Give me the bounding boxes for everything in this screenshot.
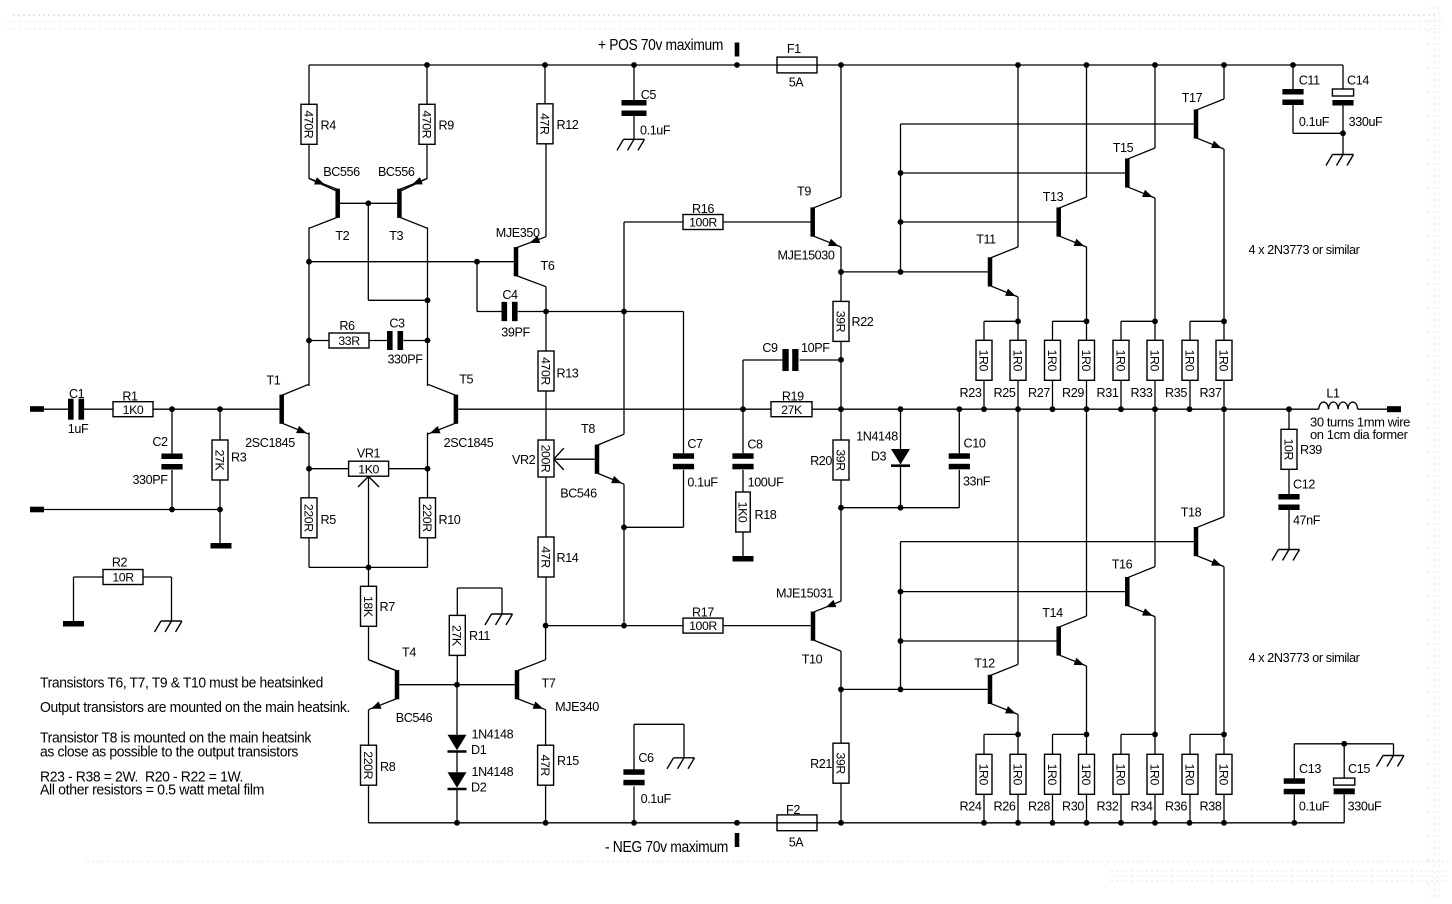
svg-text:BC556: BC556	[323, 165, 360, 179]
svg-text:+ POS 70v maximum: + POS 70v maximum	[598, 37, 723, 54]
svg-text:R36: R36	[1165, 800, 1187, 814]
svg-text:1R0: 1R0	[1079, 764, 1093, 786]
svg-text:R1: R1	[122, 390, 138, 404]
svg-text:T1: T1	[266, 374, 280, 388]
svg-text:47R: 47R	[538, 755, 552, 777]
svg-text:T13: T13	[1043, 190, 1064, 204]
svg-text:1R0: 1R0	[1216, 764, 1230, 786]
svg-text:330PF: 330PF	[132, 473, 168, 487]
svg-text:C1: C1	[69, 387, 85, 401]
svg-text:330uF: 330uF	[1348, 800, 1382, 814]
svg-text:100UF: 100UF	[748, 476, 785, 490]
svg-text:47nF: 47nF	[1293, 514, 1321, 528]
svg-text:All other resistors = 0.5 watt: All other resistors = 0.5 watt metal fil…	[40, 782, 264, 799]
svg-text:10R: 10R	[1281, 439, 1295, 461]
svg-text:0.1uF: 0.1uF	[1299, 800, 1330, 814]
svg-text:D3: D3	[871, 450, 887, 464]
svg-text:T15: T15	[1113, 141, 1134, 155]
svg-text:T14: T14	[1042, 606, 1063, 620]
svg-text:R27: R27	[1028, 386, 1050, 400]
svg-text:1R0: 1R0	[976, 350, 990, 372]
svg-text:1R0: 1R0	[1147, 764, 1161, 786]
svg-text:C9: C9	[762, 341, 778, 355]
svg-text:F1: F1	[787, 42, 801, 56]
svg-text:F2: F2	[786, 803, 800, 817]
svg-text:R29: R29	[1062, 386, 1084, 400]
svg-text:C6: C6	[638, 751, 654, 765]
svg-text:1K0: 1K0	[358, 462, 379, 476]
svg-text:C11: C11	[1299, 74, 1320, 88]
svg-text:33R: 33R	[338, 334, 360, 348]
svg-text:R38: R38	[1200, 800, 1222, 814]
svg-text:R3: R3	[231, 451, 247, 465]
svg-text:C7: C7	[687, 437, 703, 451]
svg-text:R2: R2	[112, 556, 128, 570]
svg-text:R21: R21	[810, 757, 832, 771]
svg-text:T2: T2	[335, 229, 349, 243]
svg-text:220R: 220R	[361, 751, 375, 779]
svg-text:1R0: 1R0	[1010, 764, 1024, 786]
svg-text:18K: 18K	[361, 596, 375, 618]
svg-text:39PF: 39PF	[501, 326, 530, 340]
svg-text:27K: 27K	[212, 450, 226, 472]
svg-text:10PF: 10PF	[801, 341, 830, 355]
svg-text:1R0: 1R0	[1182, 764, 1196, 786]
svg-text:1R0: 1R0	[1113, 764, 1127, 786]
svg-text:C10: C10	[964, 437, 986, 451]
svg-text:R7: R7	[380, 600, 396, 614]
svg-text:2SC1845: 2SC1845	[245, 436, 295, 450]
svg-text:T11: T11	[976, 233, 996, 247]
svg-text:1uF: 1uF	[68, 422, 89, 436]
svg-text:R5: R5	[321, 513, 337, 527]
svg-text:D2: D2	[471, 781, 487, 795]
svg-text:C5: C5	[641, 88, 657, 102]
svg-text:C15: C15	[1348, 762, 1370, 776]
svg-text:R25: R25	[994, 386, 1016, 400]
svg-text:Output transistors are mounted: Output transistors are mounted on the ma…	[40, 699, 350, 716]
svg-text:T10: T10	[802, 653, 823, 667]
svg-text:R11: R11	[469, 629, 490, 643]
svg-text:1R0: 1R0	[976, 764, 990, 786]
svg-text:BC546: BC546	[396, 711, 433, 725]
svg-text:T8: T8	[581, 422, 595, 436]
svg-text:D1: D1	[471, 743, 487, 757]
svg-text:VR1: VR1	[357, 447, 381, 461]
svg-text:2SC1845: 2SC1845	[444, 436, 494, 450]
svg-text:MJE15030: MJE15030	[777, 249, 834, 263]
svg-text:R20: R20	[810, 454, 832, 468]
svg-text:470R: 470R	[538, 357, 552, 385]
svg-text:1K0: 1K0	[123, 403, 144, 417]
svg-text:330uF: 330uF	[1349, 115, 1383, 129]
svg-text:1R0: 1R0	[1010, 350, 1024, 372]
svg-text:1R0: 1R0	[1216, 350, 1230, 372]
svg-text:R30: R30	[1062, 800, 1084, 814]
svg-text:220R: 220R	[301, 504, 315, 532]
svg-text:R23: R23	[960, 386, 982, 400]
svg-text:27K: 27K	[450, 625, 464, 647]
svg-text:47R: 47R	[537, 113, 551, 135]
svg-text:BC556: BC556	[378, 165, 415, 179]
svg-text:L1: L1	[1326, 387, 1340, 401]
svg-text:C8: C8	[747, 438, 763, 452]
svg-text:R19: R19	[782, 390, 804, 404]
svg-text:C12: C12	[1293, 478, 1315, 492]
svg-text:R33: R33	[1131, 386, 1153, 400]
svg-text:as close as possible to the ou: as close as possible to the output trans…	[40, 744, 298, 761]
svg-text:T12: T12	[974, 657, 995, 671]
svg-text:R17: R17	[692, 606, 714, 620]
svg-text:T16: T16	[1112, 558, 1133, 572]
svg-text:0.1uF: 0.1uF	[1299, 115, 1330, 129]
svg-text:5A: 5A	[789, 836, 805, 850]
svg-text:27K: 27K	[781, 403, 803, 417]
svg-text:470R: 470R	[419, 110, 433, 138]
svg-text:T17: T17	[1182, 91, 1203, 105]
svg-text:R24: R24	[960, 800, 982, 814]
svg-text:1R0: 1R0	[1113, 350, 1127, 372]
svg-text:R37: R37	[1200, 386, 1222, 400]
svg-text:T5: T5	[459, 373, 473, 387]
svg-text:R35: R35	[1165, 386, 1187, 400]
svg-text:47R: 47R	[538, 546, 552, 568]
svg-text:R16: R16	[692, 202, 714, 216]
svg-text:200R: 200R	[538, 445, 552, 473]
svg-text:BC546: BC546	[560, 487, 597, 501]
svg-text:T9: T9	[797, 185, 811, 199]
svg-text:1N4148: 1N4148	[472, 728, 514, 742]
svg-text:33nF: 33nF	[963, 475, 991, 489]
svg-text:4 x 2N3773 or similar: 4 x 2N3773 or similar	[1249, 243, 1360, 257]
svg-text:R6: R6	[339, 319, 355, 333]
svg-text:MJE350: MJE350	[496, 226, 540, 240]
svg-text:R15: R15	[557, 754, 579, 768]
svg-text:1K0: 1K0	[735, 502, 749, 523]
svg-text:R34: R34	[1131, 800, 1153, 814]
svg-text:1R0: 1R0	[1079, 350, 1093, 372]
svg-text:470R: 470R	[301, 110, 315, 138]
svg-text:39R: 39R	[833, 449, 847, 471]
svg-text:R9: R9	[439, 119, 455, 133]
svg-text:1R0: 1R0	[1147, 350, 1161, 372]
svg-text:1R0: 1R0	[1182, 350, 1196, 372]
svg-text:R8: R8	[380, 760, 396, 774]
svg-text:R39: R39	[1300, 443, 1322, 457]
svg-text:Transistors T6, T7, T9 & T10 m: Transistors T6, T7, T9 & T10 must be hea…	[40, 675, 323, 692]
svg-text:T6: T6	[541, 259, 555, 273]
svg-text:MJE15031: MJE15031	[776, 587, 833, 601]
svg-text:MJE340: MJE340	[555, 700, 599, 714]
svg-text:10R: 10R	[112, 571, 134, 585]
svg-text:R4: R4	[321, 119, 337, 133]
svg-text:5A: 5A	[789, 75, 805, 89]
svg-text:1N4148: 1N4148	[472, 765, 514, 779]
svg-text:R14: R14	[557, 551, 579, 565]
svg-text:R13: R13	[557, 367, 579, 381]
svg-text:C13: C13	[1299, 762, 1321, 776]
svg-text:T7: T7	[542, 676, 556, 690]
svg-text:R28: R28	[1028, 800, 1050, 814]
svg-text:220R: 220R	[420, 504, 434, 532]
svg-text:0.1uF: 0.1uF	[641, 792, 672, 806]
svg-text:R32: R32	[1097, 800, 1119, 814]
svg-text:100R: 100R	[689, 216, 717, 230]
svg-text:VR2: VR2	[512, 453, 536, 467]
svg-text:39R: 39R	[833, 311, 847, 333]
svg-text:C4: C4	[502, 288, 518, 302]
svg-text:4 x 2N3773 or similar: 4 x 2N3773 or similar	[1249, 651, 1360, 665]
svg-text:R26: R26	[994, 800, 1016, 814]
svg-text:R18: R18	[755, 508, 777, 522]
svg-text:T3: T3	[389, 229, 403, 243]
svg-text:100R: 100R	[689, 619, 717, 633]
svg-text:R10: R10	[439, 513, 461, 527]
svg-text:1R0: 1R0	[1045, 764, 1059, 786]
svg-text:- NEG 70v maximum: - NEG 70v maximum	[605, 839, 728, 856]
svg-text:C3: C3	[389, 317, 405, 331]
svg-text:T18: T18	[1181, 506, 1202, 520]
svg-text:R12: R12	[557, 118, 579, 132]
svg-text:0.1uF: 0.1uF	[687, 476, 718, 490]
svg-text:C2: C2	[152, 435, 168, 449]
svg-text:0.1uF: 0.1uF	[640, 124, 671, 138]
svg-text:on 1cm dia former: on 1cm dia former	[1310, 428, 1408, 442]
svg-text:1N4148: 1N4148	[856, 430, 898, 444]
svg-text:T4: T4	[402, 646, 416, 660]
svg-text:C14: C14	[1347, 74, 1369, 88]
svg-text:R31: R31	[1097, 386, 1119, 400]
svg-text:R22: R22	[852, 315, 874, 329]
svg-text:330PF: 330PF	[387, 353, 423, 367]
svg-text:39R: 39R	[833, 753, 847, 775]
svg-text:1R0: 1R0	[1045, 350, 1059, 372]
